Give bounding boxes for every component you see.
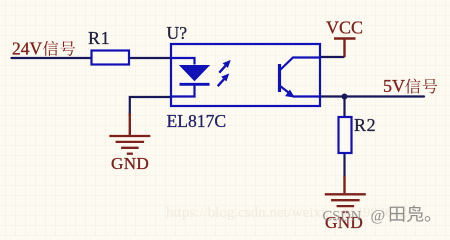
svg-text:CSDN: CSDN [323,209,362,225]
resistor R2 body [339,117,352,153]
LED emission arrow lower [218,73,230,86]
svg-text:GND: GND [111,154,149,173]
watermark CSDN @tianfu [323,205,431,224]
LED cathode lead (pin 2) [171,86,195,97]
svg-text:R1: R1 [88,28,110,48]
resistor R1 label [88,28,110,48]
svg-text:U?: U? [167,23,188,43]
wire emitter / net 5V [320,95,424,97]
LED triangle [180,66,209,81]
svg-text:5V: 5V [383,76,405,96]
watermark URL https://blog.csdn.net [166,205,416,221]
wire collector to VCC [320,56,345,58]
ground symbol right [325,176,366,212]
phototransistor collector [280,58,321,71]
svg-text:R2: R2 [354,115,376,135]
GND label right [325,213,363,232]
svg-text:@: @ [371,208,386,225]
net label 5V signal [383,76,437,96]
junction dot [342,94,348,100]
svg-text:EL817C: EL817C [167,111,227,131]
GND label left [111,154,149,173]
power port VCC stem and bar [334,39,356,58]
VCC label [326,18,363,38]
ground symbol left [109,113,150,154]
net label 24V signal [12,38,75,58]
wire R1 to U? pin1 [130,57,172,59]
optocoupler U? box [171,44,320,106]
resistor R1 body [92,51,130,65]
U? designator label [167,23,188,43]
resistor R2 label [354,115,376,135]
LED anode lead (pin 1) [171,58,195,65]
LED cathode bar [180,83,210,86]
wire junction to R2 [343,97,345,118]
phototransistor emitter with arrow [280,86,321,98]
wire net 24V: left segment [12,57,92,59]
wire U? pin2 to GND [130,97,171,116]
U? comment label EL817C [167,111,227,131]
svg-text:VCC: VCC [326,18,363,38]
phototransistor base bar [278,64,281,92]
LED emission arrow upper [219,60,231,73]
svg-text:24V: 24V [12,38,43,58]
wire R2 to GND [343,153,345,177]
